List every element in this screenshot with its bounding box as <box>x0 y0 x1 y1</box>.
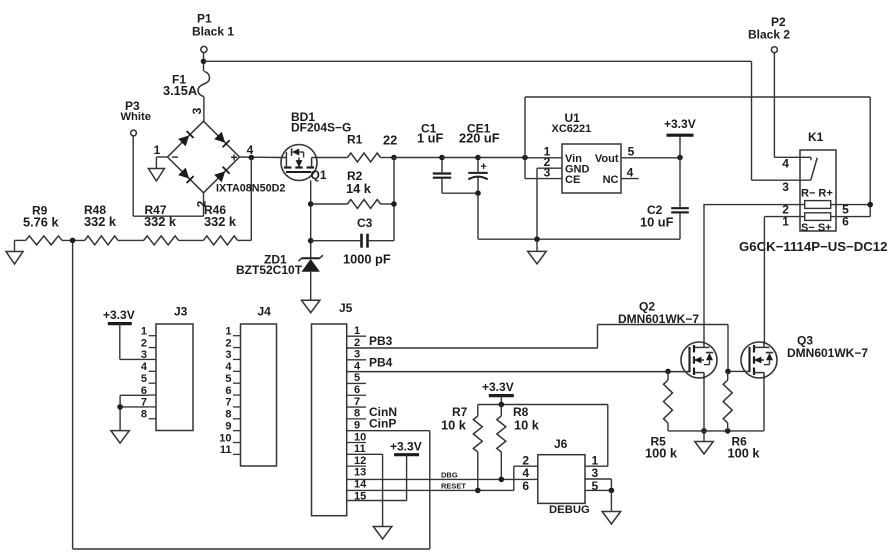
svg-text:DMN601WK−7: DMN601WK−7 <box>618 312 699 326</box>
svg-text:9: 9 <box>354 419 360 431</box>
wire R9 gnd <box>14 240 16 251</box>
transistor Q1 IXTA08N50D2 <box>280 145 318 181</box>
svg-text:+3.3V: +3.3V <box>103 308 135 322</box>
svg-text:10 k: 10 k <box>514 417 540 432</box>
connector P1 terminal <box>201 46 207 52</box>
capacitor CE1 220 uF <box>468 172 487 174</box>
svg-text:10 uF: 10 uF <box>640 214 674 229</box>
wire rail to K1 pin3 <box>751 61 753 180</box>
svg-text:1000 pF: 1000 pF <box>343 252 391 267</box>
svg-text:5: 5 <box>592 479 599 493</box>
node K1 pin5 rail <box>867 202 873 208</box>
svg-text:3: 3 <box>354 349 360 361</box>
connector J5 <box>312 324 347 516</box>
wire C1 to CE1 <box>442 157 479 159</box>
node CE1 top <box>475 155 481 161</box>
transistor Q2 DMN601WK-7 <box>681 341 717 379</box>
wire Q2 gnd stub <box>703 431 705 442</box>
node C1 top <box>439 155 445 161</box>
svg-text:2: 2 <box>354 337 360 349</box>
svg-text:6: 6 <box>842 215 849 229</box>
wire 3.3V bar to Vout <box>679 135 681 157</box>
node R8 bottom <box>499 477 505 483</box>
ground below Q2 <box>695 442 714 455</box>
wire U1 GND stub <box>536 239 538 251</box>
wire R48 to R47 <box>118 239 144 241</box>
wire C2 bottom <box>679 212 681 239</box>
wire J5 pin13 DBG <box>347 478 538 480</box>
svg-text:DEBUG: DEBUG <box>549 504 590 516</box>
wire R47 to R46 <box>179 239 204 241</box>
svg-text:2: 2 <box>225 337 231 349</box>
svg-text:6: 6 <box>522 479 529 493</box>
svg-text:5: 5 <box>225 373 231 385</box>
node CE1 bottom <box>475 190 481 196</box>
transistor Q3 DMN601WK-7 <box>741 341 777 379</box>
node R8 top <box>499 402 505 408</box>
wire J5 pin2 PB3 <box>347 347 598 349</box>
resistor R1 22 <box>348 153 381 162</box>
svg-text:+3.3V: +3.3V <box>664 117 696 131</box>
svg-text:7: 7 <box>225 397 231 409</box>
svg-text:9: 9 <box>225 420 231 432</box>
svg-text:Vout: Vout <box>595 153 619 165</box>
svg-text:R1: R1 <box>347 133 363 147</box>
wire J5 pin11 gnd <box>347 453 383 455</box>
power +3.3V at U1 <box>667 134 694 137</box>
relay K1 contact <box>811 158 817 180</box>
wire Q2 gate node <box>665 369 671 375</box>
svg-text:IXTA08N50D2: IXTA08N50D2 <box>216 183 285 195</box>
svg-text:White: White <box>121 111 151 123</box>
wire J6 pin5 down <box>610 490 612 511</box>
node J3 gnd <box>117 404 123 410</box>
wire right rail down <box>869 97 871 205</box>
svg-text:4: 4 <box>627 165 634 179</box>
svg-text:13: 13 <box>354 467 366 479</box>
wire CE1 to U1 <box>479 157 525 159</box>
ground below J6 <box>602 512 621 525</box>
svg-text:8: 8 <box>354 408 360 420</box>
wire 3.3V down to pin15 <box>406 455 408 501</box>
node Q2 source rail <box>701 428 707 434</box>
wire U1 pin4 NC stub <box>621 178 639 180</box>
svg-text:1: 1 <box>141 326 147 338</box>
wire J6 pin2 <box>514 465 538 467</box>
svg-text:4: 4 <box>782 157 789 171</box>
svg-text:J4: J4 <box>258 304 272 318</box>
wire node4 down to resistor chain <box>250 158 252 241</box>
node U1 Vin <box>522 155 528 161</box>
svg-text:+3.3V: +3.3V <box>390 440 422 454</box>
svg-text:6: 6 <box>354 384 360 396</box>
relay K1 S coil <box>805 213 831 221</box>
svg-text:+: + <box>480 161 486 173</box>
svg-text:14: 14 <box>354 479 367 491</box>
svg-text:11: 11 <box>354 443 366 455</box>
wire R7R8 rail <box>478 404 608 406</box>
wire U1 pin3 CE <box>525 178 562 180</box>
wire C1 bottom <box>441 178 443 194</box>
wire U1 pin1 <box>525 157 562 159</box>
wire P3 to bridge bottom <box>133 215 203 217</box>
capacitor C2 10 uF <box>671 207 689 209</box>
node R7 bottom <box>475 488 481 494</box>
svg-text:14 k: 14 k <box>346 181 372 196</box>
wire source rail <box>668 430 764 432</box>
svg-text:1: 1 <box>354 325 360 337</box>
ground at R9 <box>6 252 23 265</box>
svg-text:Black 2: Black 2 <box>748 28 790 42</box>
wire CE1 down <box>477 193 479 239</box>
svg-text:5.76 k: 5.76 k <box>23 215 59 230</box>
power +3.3V at J5 <box>394 453 419 456</box>
svg-text:+: + <box>230 151 237 165</box>
svg-text:100 k: 100 k <box>645 446 678 461</box>
wire J5 pin14 RESET <box>347 489 514 491</box>
wire Q3 drain <box>763 217 765 343</box>
wire P3 down <box>132 136 134 216</box>
svg-text:100 k: 100 k <box>728 446 761 461</box>
svg-text:22: 22 <box>383 133 397 148</box>
svg-text:C3: C3 <box>357 216 373 230</box>
wire J6 pin1 <box>585 465 608 467</box>
wire R1 to C1 <box>394 157 442 159</box>
svg-text:K1: K1 <box>808 130 824 144</box>
wire J3 pin7 gnd <box>120 406 149 408</box>
svg-text:NC: NC <box>603 174 619 186</box>
svg-text:1: 1 <box>782 215 789 229</box>
ground below J5 <box>373 527 392 540</box>
wire Q1 gate down <box>310 180 312 258</box>
wire 3.3V to rail <box>500 396 502 405</box>
wire J3 pin6 gnd <box>120 394 149 396</box>
wire Q3 gate <box>728 370 750 372</box>
resistor R46 332 k <box>203 236 237 245</box>
node R2 right <box>391 201 397 207</box>
svg-text:6: 6 <box>225 385 231 397</box>
bridge rectifier BD1 DF204S-G <box>168 121 240 193</box>
svg-text:CinP: CinP <box>369 416 396 430</box>
svg-text:XC6221: XC6221 <box>552 123 592 135</box>
wire bottom rail <box>73 548 430 550</box>
svg-text:R− R+: R− R+ <box>801 187 833 199</box>
power +3.3V at R7R8 <box>489 394 514 397</box>
wire C3 right <box>369 240 394 242</box>
svg-text:S− S+: S− S+ <box>801 222 832 234</box>
wire F1 to bridge <box>203 97 205 122</box>
svg-text:3: 3 <box>782 180 789 194</box>
svg-text:PB4: PB4 <box>369 355 393 369</box>
svg-text:5: 5 <box>628 144 635 158</box>
wire R2 left <box>311 203 348 205</box>
wire J5 pin15 3.3V <box>347 500 407 502</box>
power +3.3V at J3 <box>108 322 132 325</box>
connector J6 DEBUG <box>538 455 585 504</box>
svg-text:RESET: RESET <box>441 482 466 491</box>
wire PB3 up <box>597 325 599 349</box>
svg-text:BZT52C10T: BZT52C10T <box>236 263 303 277</box>
svg-text:1 uF: 1 uF <box>417 131 443 146</box>
wire K1 pin6 <box>831 216 871 218</box>
svg-text:DF204S−G: DF204S−G <box>291 121 351 135</box>
wire C2 top <box>679 158 681 209</box>
relay K1 box <box>800 150 836 231</box>
wire R2 right <box>381 203 395 205</box>
wire Q2 drain <box>703 205 705 343</box>
svg-text:4: 4 <box>225 361 232 373</box>
wire R1 right lead <box>381 157 395 159</box>
svg-text:2: 2 <box>522 453 529 467</box>
wire J6 pin3 <box>585 478 611 480</box>
ground at bridge pin1 <box>148 169 164 182</box>
resistor R48 332 k <box>85 236 118 245</box>
wire R46 to bridge node <box>238 239 252 241</box>
svg-text:10: 10 <box>219 432 231 444</box>
svg-text:PB3: PB3 <box>369 334 393 348</box>
svg-text:10 k: 10 k <box>441 417 467 432</box>
wire K1 pin4 <box>774 156 811 158</box>
connector J4 <box>241 324 277 466</box>
resistor R7 10 k <box>477 405 479 417</box>
wire Q3 source <box>763 378 765 431</box>
svg-text:3.15A: 3.15A <box>163 83 197 98</box>
svg-text:4: 4 <box>247 143 254 157</box>
wire top rail <box>525 96 870 98</box>
svg-text:CE: CE <box>565 174 580 186</box>
svg-text:332 k: 332 k <box>84 214 117 229</box>
svg-text:Black 1: Black 1 <box>192 25 234 39</box>
svg-text:8: 8 <box>141 409 147 421</box>
svg-text:DBG: DBG <box>441 470 458 479</box>
wire bridge bottom vertical <box>203 193 205 216</box>
svg-text:−: − <box>171 150 178 164</box>
svg-text:1: 1 <box>154 143 161 157</box>
svg-text:P1: P1 <box>197 12 212 26</box>
resistor R47 332 k <box>144 236 179 245</box>
ground below U1 <box>528 251 547 264</box>
svg-text:220 uF: 220 uF <box>459 131 500 146</box>
capacitor C3 1000 pF <box>360 234 363 248</box>
node J6 pin5 <box>609 488 615 494</box>
wire C3 left <box>311 240 361 242</box>
wire R9 to R48 <box>62 239 85 241</box>
wire PB3 right <box>598 324 729 326</box>
svg-text:11: 11 <box>220 444 232 456</box>
svg-text:4: 4 <box>354 360 361 372</box>
wire K1 pin1 <box>764 216 804 218</box>
wire ground rail <box>478 238 680 240</box>
wire K1 pin5 <box>831 204 871 206</box>
wire Vin vertical <box>524 97 526 179</box>
node Q1 gate C3 <box>308 238 314 244</box>
svg-text:DMN601WK−7: DMN601WK−7 <box>787 346 868 360</box>
wire P1 vertical <box>203 53 205 71</box>
ground below ZD1 <box>301 300 320 313</box>
node chain junction <box>70 238 76 244</box>
resistor R6 100 k <box>727 371 729 380</box>
node Q1 gate R2 <box>308 201 314 207</box>
svg-text:+3.3V: +3.3V <box>482 380 514 394</box>
svg-text:1: 1 <box>225 326 231 338</box>
wire K1 pin2 <box>703 204 804 206</box>
svg-text:2: 2 <box>141 337 147 349</box>
resistor R9 5.76 k <box>15 239 26 241</box>
wire CE1 bottom <box>477 178 479 194</box>
resistor R2 14 k <box>348 200 381 209</box>
op-amp U1 XC6221 regulator <box>562 144 621 193</box>
svg-text:3: 3 <box>190 107 204 114</box>
ground below J3 <box>111 431 130 444</box>
node R1 right <box>391 155 397 161</box>
svg-text:8: 8 <box>225 409 231 421</box>
wire R1 node down <box>393 158 395 241</box>
svg-text:1: 1 <box>592 453 599 467</box>
svg-text:5: 5 <box>141 373 147 385</box>
wire J5 pin4 PB4 <box>347 371 690 373</box>
wire CE1 top <box>477 158 479 173</box>
svg-text:3: 3 <box>544 165 551 179</box>
wire 3.3V to J3 pin3 <box>119 324 121 360</box>
wire P1 top rail <box>204 60 752 62</box>
relay K1 R coil <box>805 201 831 209</box>
connector P2 terminal <box>771 47 777 53</box>
svg-text:10: 10 <box>354 431 366 443</box>
svg-text:J5: J5 <box>339 301 353 315</box>
resistor R5 100 k <box>667 371 669 380</box>
svg-text:3: 3 <box>225 349 231 361</box>
node R6 bottom rail <box>725 428 731 434</box>
node P1 junction <box>201 59 207 65</box>
node bridge output <box>249 155 255 161</box>
node Vout <box>677 155 683 161</box>
connector P3 terminal <box>131 130 137 136</box>
wire PB3 down to Q3 gate <box>727 325 729 372</box>
wire Q2 source <box>703 378 705 431</box>
svg-text:G6CK−1114P−US−DC12: G6CK−1114P−US−DC12 <box>739 239 887 254</box>
zener diode ZD1 BZT52C10T <box>302 259 320 272</box>
svg-text:J6: J6 <box>554 437 568 451</box>
wire J5 pin9 CinP <box>347 430 430 432</box>
capacitor C1 1 uF <box>433 172 451 174</box>
wire J6 pin5 <box>585 489 611 491</box>
wire bridge pin1 <box>156 156 167 158</box>
svg-text:332 k: 332 k <box>144 214 177 229</box>
svg-text:J3: J3 <box>174 304 188 318</box>
wire CinP down <box>429 431 431 549</box>
wire P2 down to K1 pin4 <box>773 53 775 158</box>
wire U1 pin2 GND <box>537 167 562 169</box>
wire Q1 source to R1 <box>318 157 348 159</box>
wire C1 top <box>441 158 443 174</box>
svg-text:7: 7 <box>354 396 360 408</box>
wire ZD1 to ground <box>310 272 312 300</box>
svg-text:332 k: 332 k <box>204 214 237 229</box>
node U1 GND rail <box>534 236 540 242</box>
svg-text:Q3: Q3 <box>797 333 813 347</box>
wire left rail <box>72 240 74 549</box>
wire U1 pin5 Vout <box>621 157 680 159</box>
svg-text:5: 5 <box>354 372 360 384</box>
node Q3 gate R6 <box>725 369 731 375</box>
resistor R8 10 k <box>500 405 502 417</box>
wire K1 pin3 <box>752 179 811 181</box>
svg-text:12: 12 <box>354 455 366 467</box>
svg-text:4: 4 <box>141 361 148 373</box>
wire bridge pin4 <box>240 156 281 159</box>
connector J3 <box>156 324 193 431</box>
svg-text:Q1: Q1 <box>311 168 327 182</box>
